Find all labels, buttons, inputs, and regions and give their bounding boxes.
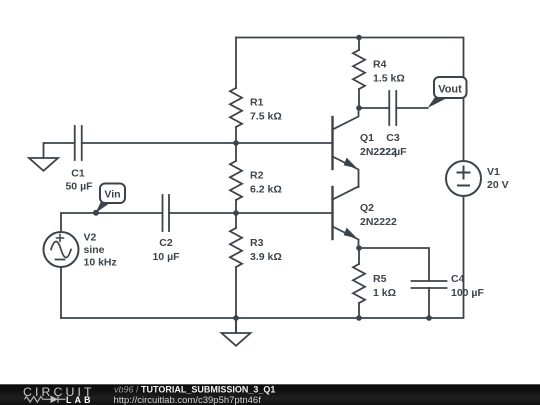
svg-text:V1: V1 (487, 166, 500, 178)
svg-text:R3: R3 (250, 237, 264, 249)
svg-text:50 µF: 50 µF (65, 181, 93, 193)
svg-text:R4: R4 (373, 59, 387, 71)
svg-text:10 µF: 10 µF (152, 251, 180, 263)
svg-text:LAB: LAB (66, 395, 94, 405)
svg-text:C1: C1 (71, 168, 85, 180)
svg-text:sine: sine (84, 244, 105, 256)
svg-text:7.5 kΩ: 7.5 kΩ (250, 111, 282, 123)
svg-text:Vout: Vout (438, 84, 462, 96)
svg-text:V2: V2 (84, 232, 97, 244)
svg-text:6.2 kΩ: 6.2 kΩ (250, 184, 282, 196)
svg-text:1 kΩ: 1 kΩ (373, 287, 396, 299)
svg-text:3.9 kΩ: 3.9 kΩ (250, 251, 282, 263)
svg-text:22 µF: 22 µF (379, 146, 407, 158)
svg-text:Q1: Q1 (360, 132, 374, 144)
svg-text:10 kHz: 10 kHz (84, 257, 117, 269)
svg-text:http://circuitlab.com/c39p5h7p: http://circuitlab.com/c39p5h7ptn46f (114, 395, 262, 405)
svg-text:R5: R5 (373, 273, 387, 285)
svg-text:vb96 / TUTORIAL_SUBMISSION_3_Q: vb96 / TUTORIAL_SUBMISSION_3_Q1 (114, 385, 275, 395)
svg-text:Q2: Q2 (360, 202, 374, 214)
svg-text:C2: C2 (159, 237, 173, 249)
svg-text:C3: C3 (386, 132, 400, 144)
svg-text:Vin: Vin (104, 189, 120, 201)
svg-text:100 µF: 100 µF (451, 287, 484, 299)
svg-text:2N2222: 2N2222 (360, 216, 397, 228)
svg-text:R1: R1 (250, 97, 264, 109)
svg-text:20 V: 20 V (487, 179, 509, 191)
svg-text:1.5 kΩ: 1.5 kΩ (373, 73, 405, 85)
svg-text:C4: C4 (451, 273, 465, 285)
svg-text:R2: R2 (250, 170, 264, 182)
